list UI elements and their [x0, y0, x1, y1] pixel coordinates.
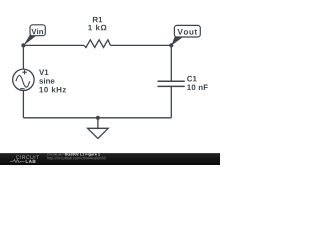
node ground junction dot: [96, 116, 100, 120]
wire R1 right terminal to Vout node: [111, 44, 172, 46]
resistor R1: [84, 40, 111, 48]
node Vin junction dot: [21, 43, 25, 47]
node Vout label flag box: [174, 25, 200, 37]
node Vout label text: [178, 29, 198, 35]
label V1 name: [39, 70, 48, 75]
bottom rail wire: [23, 117, 171, 119]
wire Vin node to R1 left terminal: [23, 44, 84, 46]
label V1 value 10 kHz: [40, 87, 67, 93]
voltage source V1 circle: [13, 69, 34, 90]
node Vout label flag tail: [171, 36, 183, 45]
label C1 value 10 nF: [187, 84, 207, 90]
CircuitLab logo LAB: [26, 160, 36, 163]
ground stub wire: [97, 118, 99, 129]
CircuitLab logo waveform squiggle: [10, 160, 25, 163]
CircuitLab logo CIRCUIT: [16, 155, 39, 159]
node Vin label flag box: [30, 25, 45, 36]
wire C1 bottom plate to bottom rail: [170, 86, 172, 117]
node Vin label text: [31, 29, 43, 35]
label R1 value 1 kOhm: [88, 25, 106, 31]
node Vin label flag tail: [23, 35, 36, 46]
capacitor C1 bottom plate: [158, 85, 185, 87]
capacitor C1 top plate: [158, 80, 185, 82]
ground symbol: [88, 128, 109, 138]
label V1 type sine: [39, 78, 54, 84]
V1 plus sign: [22, 70, 27, 75]
footer caption prefix: [47, 153, 64, 155]
footer watermark bar: [0, 153, 220, 165]
V1 sine symbol: [16, 75, 30, 87]
V1 minus sign: [20, 88, 25, 90]
footer caption url: [47, 157, 105, 161]
node Vout junction dot: [169, 43, 173, 47]
wire Vout node down to C1 top plate: [170, 45, 172, 81]
wire V1 bottom to bottom rail: [22, 91, 24, 118]
wire Vin node down to V1 top: [22, 45, 24, 69]
label R1 name: [93, 17, 102, 22]
footer caption title: [65, 153, 100, 157]
label C1 name: [187, 76, 197, 82]
